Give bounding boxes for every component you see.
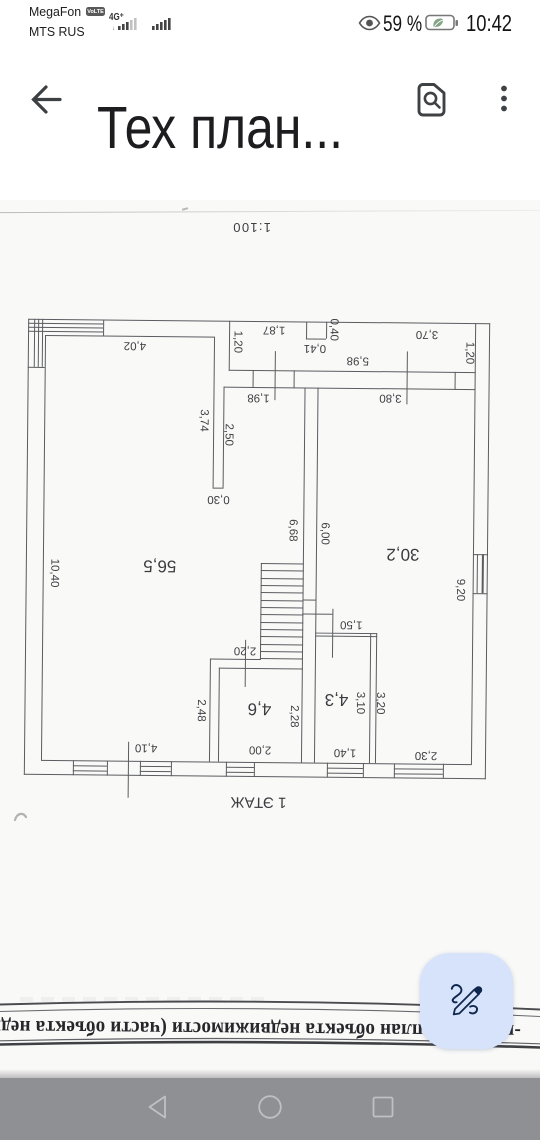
chimney box bottom (306, 338, 326, 339)
room 4,6 outer left wall (208, 659, 210, 762)
dimension 4,02 (123, 339, 145, 350)
window W1 pane b (73, 770, 107, 772)
dimension 1,87 (262, 323, 284, 334)
stair tread 12 (260, 644, 303, 646)
stair tread 1 (261, 563, 304, 565)
3 dots (496, 84, 512, 116)
dimension 3,80 (379, 391, 401, 402)
floor label 1 ETAZh (230, 794, 286, 810)
right window pane b (482, 554, 484, 593)
stair tread 11 (260, 636, 303, 638)
window W1 jamb right (106, 760, 107, 776)
dim tick 1,50 (332, 608, 334, 658)
corridor bottom wall (229, 370, 476, 374)
window W4 pane b (327, 772, 363, 774)
tiny tick near page top (182, 207, 188, 210)
room area 4,6 (248, 701, 272, 716)
pen cap (474, 987, 482, 995)
stub wall right (223, 387, 225, 488)
stair tread 13 (260, 651, 303, 653)
window W2 pane b (140, 770, 171, 772)
steps right edge (103, 320, 104, 336)
dim tick 2,20 (244, 639, 246, 687)
operator name MTS RUS (29, 24, 85, 39)
room 56.5 top wall (45, 334, 214, 337)
steps bottom edge (28, 366, 45, 367)
inner wall bottom (41, 759, 472, 764)
dimension 1,20 (vertical) (231, 330, 242, 352)
signal bars 1 (112, 16, 144, 31)
right window bottom (472, 593, 488, 594)
band bottom thick rule (0, 1042, 540, 1047)
squiggle stroke (451, 985, 461, 1002)
band top thick rule (0, 1001, 540, 1009)
window W2 jamb left (140, 760, 141, 776)
band top thin rule (0, 1008, 540, 1016)
window W5 pane a (393, 768, 442, 770)
step line 5 (38, 319, 40, 367)
dimension 0,41 (303, 341, 325, 352)
window W5 pane b (393, 773, 442, 775)
window W2 jamb right (171, 761, 172, 777)
pen body (453, 989, 478, 1014)
window W3 jamb left (226, 761, 227, 777)
window W2 pane a (140, 765, 171, 767)
stub wall left (212, 336, 215, 488)
right window top (472, 554, 488, 555)
window W5 jamb left (393, 763, 394, 779)
outer wall bottom (24, 773, 486, 779)
inner wall right (470, 323, 476, 764)
window W4 jamb right (362, 763, 363, 779)
dimension 2,20 (234, 644, 256, 655)
chimney box right (326, 322, 327, 339)
stair left edge (260, 563, 262, 659)
eye icon (358, 15, 381, 31)
room 4,3 top wall b (315, 635, 377, 637)
room area 4,3 (324, 692, 348, 707)
stair tread 9 (260, 622, 303, 624)
dimension 1,98 (247, 391, 269, 402)
room 4,6 outer top wall (209, 659, 261, 661)
outer wall right (484, 323, 490, 779)
small hook (469, 1006, 476, 1013)
bottom text band (page-local y = actual-200; svg top = actual 995) (0, 995, 540, 1057)
dimension 4,10 (135, 741, 157, 752)
plan wrapper: actual (26,321)->(488,777); page-local top=121 (24, 319, 490, 779)
dimension 1,50 (340, 618, 362, 629)
dimension 5,98 (347, 354, 369, 365)
dimension 2,48 (vertical) (195, 699, 206, 721)
step line 1 (28, 323, 103, 325)
small pencil mark (13, 810, 29, 824)
shadow above nav bar (0, 1069, 540, 1078)
dimension 1,20 (vertical) (463, 342, 474, 364)
dim tick 1,87/1,98 (274, 351, 276, 400)
dim tick 4,10 (128, 742, 130, 798)
door jamb c (455, 372, 456, 390)
dimension 2,00 (249, 743, 271, 754)
stair tread 3 (261, 578, 304, 580)
room area 30,2 (386, 547, 419, 562)
dimension 0,30 (207, 493, 229, 504)
stair tread 10 (260, 629, 303, 631)
room 4,6 inner left wall (218, 668, 220, 762)
clock 10:42 (466, 12, 512, 35)
inner wall left (41, 334, 46, 759)
dimension 2,50 (vertical) (222, 423, 233, 445)
center wall right (313, 388, 318, 763)
door jamb a (253, 370, 254, 388)
room area 56,5 (143, 558, 176, 573)
window W3 jamb right (254, 761, 255, 777)
ghost ink bleed above band (20, 997, 270, 1002)
stub wall end (212, 488, 224, 489)
document title (97, 99, 343, 158)
right window pane a (477, 554, 479, 593)
rooms top wall (224, 387, 476, 391)
dimension 6,00 (vertical) (319, 523, 330, 545)
band bottom thin rule (0, 1038, 540, 1043)
dim tick 3,80 (406, 351, 408, 404)
stair tread 7 (260, 607, 303, 609)
center wall left (301, 388, 306, 762)
stair tread 6 (261, 600, 304, 602)
window W3 pane b (226, 771, 254, 773)
back arrow (30, 84, 62, 116)
dimension 3,20 (vertical) (374, 692, 385, 714)
wall connector (303, 599, 317, 600)
dimension 2,28 (vertical) (287, 705, 298, 727)
signal bars 2 (150, 16, 176, 31)
dimension 9,20 (vertical) (454, 579, 465, 601)
battery percent 59% (383, 13, 422, 35)
dimension 6,68 (vertical) (287, 519, 298, 541)
room 4,3 top wall a (315, 632, 377, 634)
window W4 pane a (327, 767, 363, 769)
corridor left wall (229, 321, 231, 371)
window W3 pane a (226, 766, 254, 768)
dimension 3,74 (vertical) (197, 409, 208, 431)
step line 6 (42, 319, 44, 367)
room 4,6 inner top wall (219, 668, 303, 670)
stair tread 4 (261, 585, 304, 587)
chimney box left (306, 321, 307, 338)
band serif text (upside down) (11, 1016, 521, 1044)
outer wall top (28, 319, 490, 325)
step line 2 (28, 327, 103, 329)
room 4,3 right wall inner (369, 633, 372, 764)
scale label 1:100 (page-local coords: y = actual-200) (232, 222, 271, 233)
operator name MegaFon (29, 4, 81, 19)
stair tread 8 (260, 614, 303, 616)
door jamb b (293, 370, 294, 388)
dimension 0,40 (vertical) (327, 318, 338, 340)
outer wall left (24, 319, 30, 775)
window W1 jamb left (73, 760, 74, 776)
step line 4 (34, 319, 36, 367)
window W4 jamb left (327, 762, 328, 778)
VoLTE badge (86, 7, 105, 17)
dimension 2,30 (415, 749, 437, 760)
dimension 3,10 (vertical) (354, 692, 365, 714)
svg-text:↓: ↓ (112, 26, 115, 31)
stair tread 2 (261, 570, 304, 572)
step line 3 (28, 331, 103, 333)
dimension 10,40 (vertical) (48, 559, 59, 588)
stair tread 14 (260, 658, 303, 660)
dimension 3,70 (416, 328, 438, 339)
room 4,3 right wall outer (374, 633, 377, 764)
window W1 pane a (73, 765, 107, 767)
window W5 jamb right (442, 763, 443, 779)
page top edge (0, 210, 540, 214)
battery (425, 14, 460, 32)
understair line (302, 613, 332, 615)
search-in-doc icon (416, 82, 449, 118)
dimension 1,40 (334, 746, 356, 757)
4G+ network label (109, 12, 124, 23)
stair tread 5 (261, 592, 304, 594)
